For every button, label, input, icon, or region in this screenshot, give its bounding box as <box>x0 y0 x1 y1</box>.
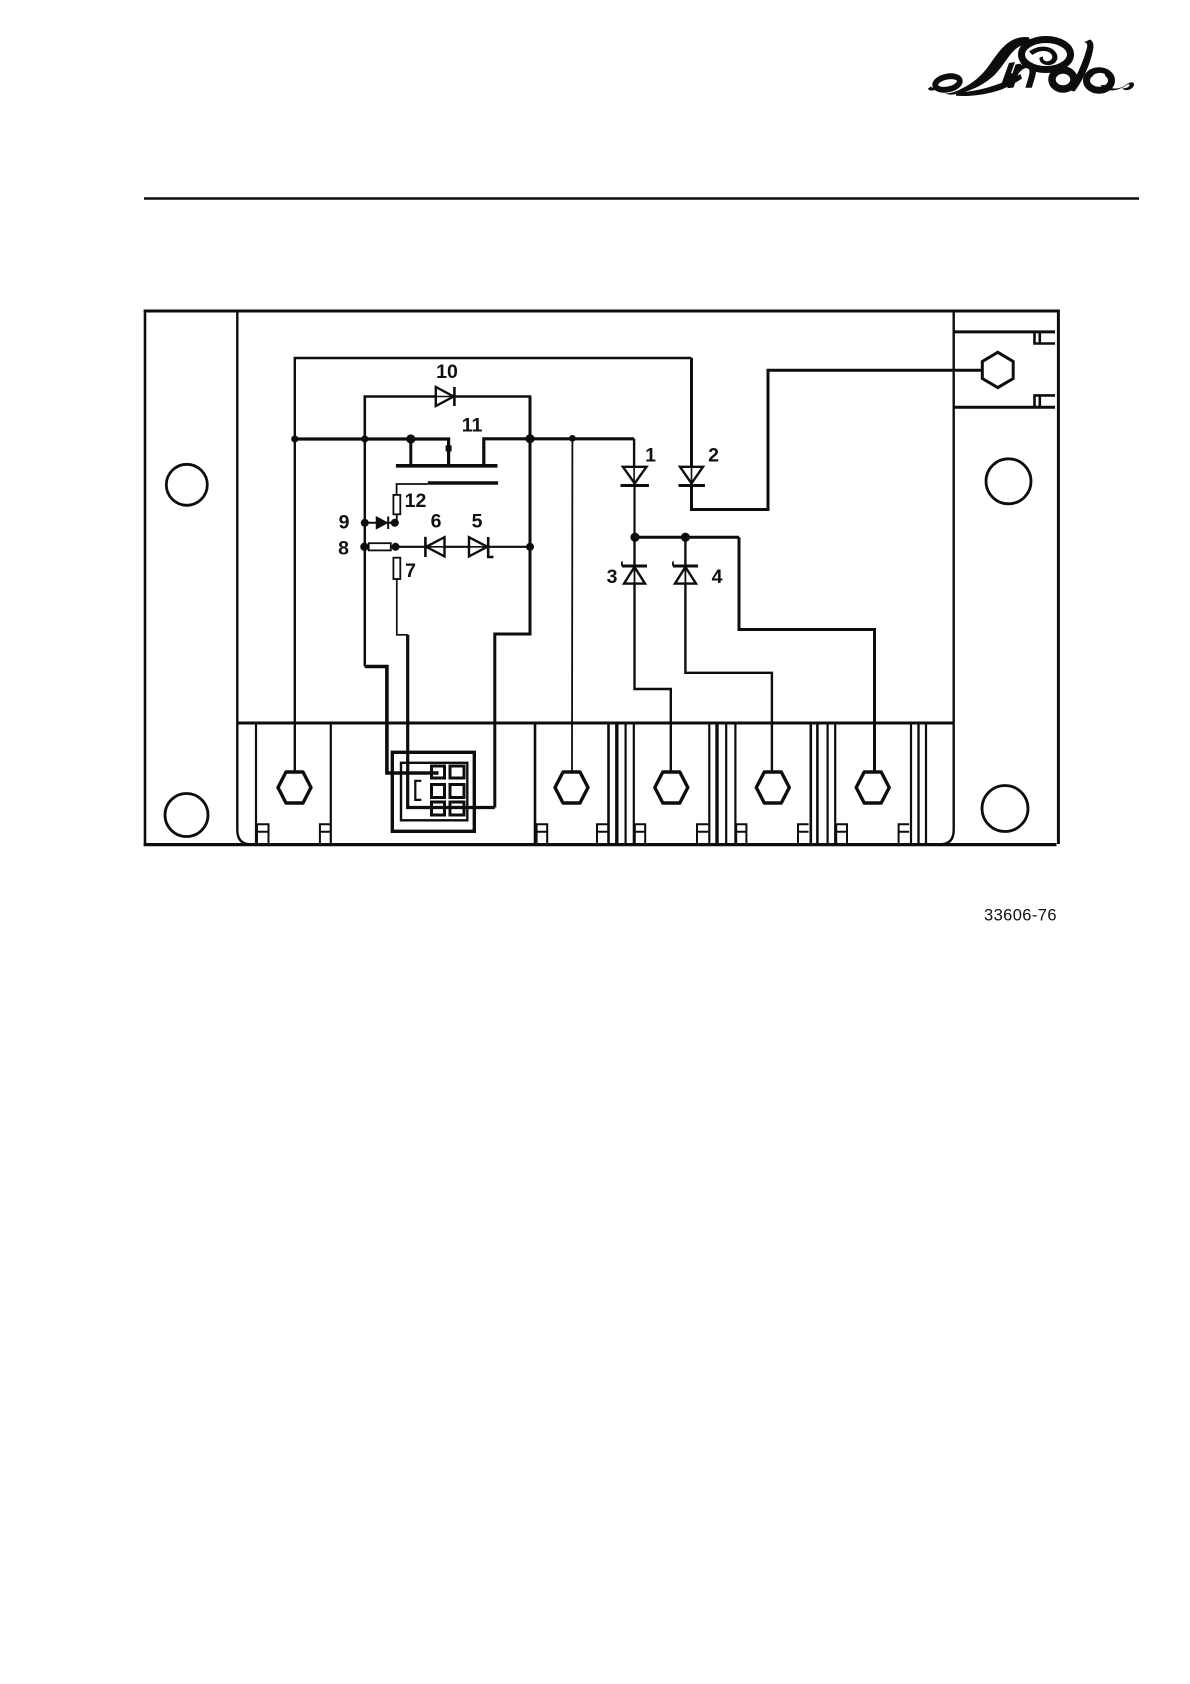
node: y537 mid <box>681 533 690 542</box>
diode 4 lead through and zener tick <box>673 562 685 584</box>
terminal block 5 left wall <box>834 723 836 844</box>
wire: diode 1 to junction row <box>633 486 635 538</box>
connector pin 3 <box>432 785 445 798</box>
node: diode 9 right <box>391 519 399 527</box>
terminal block 4 left foot <box>736 824 746 844</box>
wire: diode 2 to hex bolt <box>692 370 983 509</box>
node: bus at x572 <box>569 435 576 442</box>
node: bus at x295 <box>291 435 298 442</box>
terminal block 5 left foot <box>836 824 847 844</box>
wire: right vertical x530 down and to connector <box>495 397 530 808</box>
terminal block 1 right wall <box>330 723 332 844</box>
terminal stud M5 <box>856 772 889 803</box>
hex bolt block bottom edge <box>954 406 1055 409</box>
node: bus at x530 <box>525 434 534 443</box>
wire: main bus left segment <box>295 439 449 465</box>
horizontal rule <box>144 197 1139 200</box>
resistor 12 <box>393 495 400 514</box>
diode 2 lead through <box>691 467 693 485</box>
diode 5 and 6 lead through <box>426 546 488 548</box>
svg-text:4: 4 <box>712 566 723 588</box>
terminal block 1 left foot <box>257 824 269 844</box>
terminal block 3 left wall <box>633 723 635 844</box>
node: diode 9 left <box>361 519 369 527</box>
connector block outer box <box>392 752 474 831</box>
fins right of block 5 <box>919 723 927 844</box>
wire: riser from bus to terminal M1 and box top <box>295 358 692 772</box>
wire: row 8 <box>364 546 531 548</box>
node: bus at x411 <box>406 434 415 443</box>
wire: left vertical x365 <box>364 439 367 667</box>
wire: riser from bus to terminal M2 <box>571 438 573 772</box>
right column divider <box>940 311 954 844</box>
wire: junction row to terminal M5 <box>739 537 875 772</box>
wire: step to connector feed A <box>365 667 439 774</box>
terminal block 5 right wall <box>910 723 912 844</box>
Linde logo <box>928 37 1134 96</box>
terminal block 2 left wall <box>534 723 537 844</box>
fins between block 4 and 5 <box>817 723 827 844</box>
svg-text:6: 6 <box>431 511 442 533</box>
terminal block 2 left foot <box>537 824 548 844</box>
wire: diode 3 to terminal M3 <box>635 584 671 773</box>
terminal block 4 left wall <box>734 723 736 844</box>
resistor 8 <box>369 543 391 550</box>
wire: main bus right segment <box>484 439 634 465</box>
terminal block 3 left foot <box>635 824 645 844</box>
diode 1 <box>621 467 650 486</box>
terminal stud M4 <box>756 772 789 803</box>
terminal block 1 right foot <box>320 824 331 844</box>
svg-text:8: 8 <box>338 538 349 560</box>
transistor 11 (MOSFET) <box>396 439 498 495</box>
connector pin 6 <box>450 802 464 815</box>
svg-text:1: 1 <box>645 445 656 467</box>
mounting hole top-right <box>986 459 1031 504</box>
wire: connector feed B <box>408 635 495 808</box>
left column divider <box>237 311 251 844</box>
node: y537 left <box>630 533 639 542</box>
connector pin 1 <box>432 766 445 778</box>
top clip <box>1035 333 1056 344</box>
svg-text:3: 3 <box>607 566 618 588</box>
wire: top line down to diode 2 <box>690 358 693 467</box>
mounting hole bottom-right <box>982 786 1028 832</box>
diode 4 <box>673 566 698 584</box>
module outline frame <box>144 310 1059 846</box>
wire: R7 down to connector <box>397 579 408 635</box>
svg-text:33606-76: 33606-76 <box>984 907 1057 925</box>
mounting hole bottom-left <box>165 794 208 837</box>
terminal block 4 right wall <box>809 723 812 844</box>
wire: diode 3 top lead <box>633 537 635 566</box>
diode 9 <box>377 517 389 530</box>
connector latch <box>415 781 421 800</box>
terminal block 5 right foot <box>899 824 910 844</box>
svg-text:2: 2 <box>708 445 719 467</box>
terminal stud M2 <box>555 772 588 803</box>
svg-text:12: 12 <box>405 490 427 512</box>
svg-text:7: 7 <box>405 560 416 582</box>
svg-text:9: 9 <box>339 512 350 534</box>
connector pin 4 <box>450 785 464 798</box>
node: row8 left <box>360 543 368 551</box>
diode 2 <box>679 467 706 486</box>
fins between block 2 and 3 <box>617 723 626 844</box>
connector pin 2 <box>450 766 464 778</box>
terminal block 3 right foot <box>697 824 708 844</box>
hex bolt block top edge <box>954 330 1055 333</box>
svg-text:11: 11 <box>462 415 483 437</box>
terminal block 4 right foot <box>798 824 809 844</box>
diode 3 lead through and zener tick <box>622 562 635 584</box>
terminal block 3 right wall <box>708 723 710 844</box>
diode 1 lead through <box>633 467 635 485</box>
hex bolt terminal <box>982 352 1013 387</box>
node: bus at x365 <box>361 435 368 442</box>
wire: bus end down to diode 1 <box>633 439 635 467</box>
wire: R12 to node <box>396 514 398 523</box>
node: row8 right <box>526 543 534 551</box>
svg-text:5: 5 <box>472 511 483 533</box>
terminal block 2 right foot <box>597 824 608 844</box>
wire: junction row y537 <box>634 536 739 539</box>
node: row8 mid <box>392 543 400 551</box>
diode 10 lead through <box>436 396 453 398</box>
terminal block 1 left wall <box>255 723 257 844</box>
diode 6 <box>425 537 444 557</box>
terminal strip top edge <box>237 722 953 725</box>
terminal stud M1 <box>278 772 311 803</box>
bottom clip <box>1035 395 1056 406</box>
mounting hole top-left <box>166 464 207 505</box>
diode 3 <box>622 566 647 584</box>
connector pin 5 <box>432 802 445 815</box>
fins between block 3 and 4 <box>717 723 726 844</box>
diode 10 <box>436 387 455 406</box>
resistor 7 <box>393 558 400 579</box>
wire: diode 9 row <box>365 522 395 524</box>
terminal block 2 right wall <box>607 723 610 844</box>
diode 10 branch wire <box>365 397 530 440</box>
terminal stud M3 <box>655 772 688 803</box>
wire: diode 4 to terminal M4 <box>685 584 772 773</box>
diode 5 <box>469 537 494 557</box>
svg-text:10: 10 <box>436 361 458 383</box>
connector block inner box <box>401 763 467 821</box>
wire: diode 4 top lead <box>684 537 686 566</box>
